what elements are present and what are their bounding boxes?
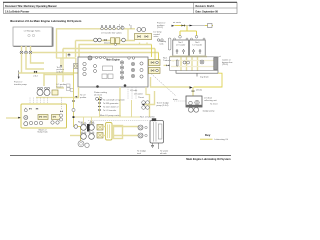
wire: TCV drops xyxy=(139,43,141,45)
top edge fittings xyxy=(95,56,97,58)
wire: cooler bottom pipe xyxy=(170,56,207,58)
pipe row A xyxy=(57,25,136,58)
pump unit A xyxy=(37,90,43,96)
wire: row B xyxy=(76,40,136,42)
auto filter column xyxy=(214,58,217,71)
svg-text:Lubricating Oil: Lubricating Oil xyxy=(215,138,229,141)
wire: loop to purifier xyxy=(70,126,140,139)
engine gauges mid xyxy=(94,61,144,79)
drain tank box xyxy=(186,96,202,107)
engine bottom fittings xyxy=(96,85,99,88)
LO cooler inlet pipe from purifier xyxy=(157,21,213,38)
valve on top pipe xyxy=(182,24,185,26)
heater dark xyxy=(87,124,90,132)
purifier pumps xyxy=(138,125,143,130)
valve: filter inlet xyxy=(164,65,170,67)
duplex filter F2 xyxy=(116,38,120,44)
wire: H2 drop xyxy=(62,49,64,53)
svg-text:purifier: purifier xyxy=(80,96,87,99)
valve: purifier suction valve (black) xyxy=(33,71,38,78)
wire: riser row B to engine xyxy=(75,41,77,58)
wire: deck box stubs xyxy=(22,46,31,51)
diagonal drain line xyxy=(151,74,176,97)
sensor labels xyxy=(130,89,144,99)
wire: filter drain to collecting unit xyxy=(194,73,223,87)
deck storage box xyxy=(13,27,53,47)
gauge pair xyxy=(137,28,141,32)
wire: manifold to coolers xyxy=(180,26,197,36)
header table xyxy=(3,2,237,13)
wire: dashed sensor drops xyxy=(88,87,152,121)
wire: branch verticals mid xyxy=(56,53,76,89)
valve bank on row A xyxy=(101,25,124,30)
tank pump 2 xyxy=(24,122,28,126)
vent stub 2 xyxy=(130,25,132,29)
tank inlet valve xyxy=(24,109,27,112)
svg-text:To 2.6.4: To 2.6.4 xyxy=(210,104,218,106)
wire: purifier feed band xyxy=(75,116,140,118)
svg-text:heaters: heaters xyxy=(57,86,64,89)
svg-text:valve: valve xyxy=(154,36,160,38)
svg-text:Document Title: Machinery Oper: Document Title: Machinery Operating Manu… xyxy=(5,5,57,8)
svg-text:tray drain: tray drain xyxy=(200,76,210,79)
wire: engine outlet corner xyxy=(146,87,150,95)
standpipe fittings xyxy=(72,100,75,102)
svg-text:LO Storage Tanks: LO Storage Tanks xyxy=(24,30,41,33)
svg-text:(2.6.4): (2.6.4) xyxy=(196,90,202,92)
valve: tank side inlet xyxy=(6,117,21,119)
pump unit 2 xyxy=(89,125,95,131)
filter internals xyxy=(177,60,179,66)
valve: drain inlet xyxy=(190,86,193,88)
wire: header H1 xyxy=(79,45,152,58)
purifier drains xyxy=(152,143,154,148)
svg-text:sludge pump: sludge pump xyxy=(203,111,216,113)
LO purifier unit xyxy=(137,116,169,155)
dashed stub left xyxy=(174,100,186,102)
pump unit 4 xyxy=(89,134,95,140)
drip tray xyxy=(176,71,218,77)
svg-text:To camshaft LO system: To camshaft LO system xyxy=(103,99,125,102)
turbocharger LO box 1 xyxy=(149,60,161,66)
label: to LO purifier mid xyxy=(75,95,87,99)
pump unit 3 xyxy=(81,134,87,140)
svg-text:Thrust: Thrust xyxy=(138,96,144,99)
strainer boxes xyxy=(97,125,103,139)
valve row B xyxy=(104,39,107,41)
engine label box xyxy=(103,66,113,71)
TCV box xyxy=(135,34,152,40)
label: sludge pump run xyxy=(142,91,170,107)
purifier body xyxy=(150,121,164,144)
svg-text:oil return: oil return xyxy=(94,93,103,96)
label: to LO purifiers xyxy=(57,67,64,74)
label on header H1 xyxy=(104,42,117,46)
key legend xyxy=(200,133,228,141)
wire: cooler outlet drops (pale) xyxy=(181,57,198,72)
main LO sump tank xyxy=(21,104,67,134)
bottom pumps xyxy=(78,141,84,147)
svg-text:LO Cooler: LO Cooler xyxy=(176,43,186,46)
svg-text:Date: September 08: Date: September 08 xyxy=(196,10,219,13)
pump P row B xyxy=(94,38,98,42)
svg-text:LO outlet: LO outlet xyxy=(134,93,143,96)
pump unit B xyxy=(44,90,50,96)
LO cooler No.1 xyxy=(190,38,206,56)
valve: H3 branch valve xyxy=(68,53,70,57)
wire: under-run xyxy=(36,97,79,99)
wire: purifier suction run xyxy=(19,72,79,74)
turning gear circle xyxy=(88,56,92,60)
svg-text:Main Engine Lubricating Oil Sy: Main Engine Lubricating Oil System xyxy=(186,157,231,161)
purifier heater pumps xyxy=(30,83,79,109)
wire: row A xyxy=(57,29,136,58)
svg-text:(2.6.2): (2.6.2) xyxy=(57,71,63,73)
cooler inlet valves (grey) xyxy=(179,36,198,39)
svg-text:Main LO pump suction: Main LO pump suction xyxy=(100,114,122,117)
svg-text:LO Cooler: LO Cooler xyxy=(193,43,203,46)
valve V1 xyxy=(20,51,23,54)
svg-text:(2.6.3): (2.6.3) xyxy=(222,64,228,66)
inner black valves xyxy=(29,108,31,110)
label: turbocharger xyxy=(163,58,176,62)
tank pump xyxy=(24,116,28,120)
deaerator circles xyxy=(142,101,150,110)
suction bellmouth box 2 xyxy=(52,115,61,120)
valve: pump suction xyxy=(74,125,78,129)
svg-text:Key: Key xyxy=(205,133,211,137)
mid distribution valve line xyxy=(98,96,125,117)
tank level gauge cluster xyxy=(59,98,62,122)
wire: cooler top pipe xyxy=(175,25,186,27)
svg-text:LO inlet: LO inlet xyxy=(130,89,138,92)
wire: transfer pump branch xyxy=(14,71,28,86)
tank motors xyxy=(29,121,32,124)
temperature control valve group xyxy=(128,28,163,45)
valve V2 xyxy=(25,51,28,54)
wire: drop to purifier pumps xyxy=(43,73,45,86)
svg-text:LO transfer line valves: LO transfer line valves xyxy=(101,31,122,34)
vent stub 1 xyxy=(121,25,123,29)
pipe row B xyxy=(76,38,136,44)
LO auto filter box xyxy=(170,57,219,71)
label: auto filter xyxy=(217,56,233,66)
small LO cooler vertical xyxy=(106,123,113,141)
valve V3 xyxy=(29,51,32,54)
turbocharger LO box 2 xyxy=(149,68,161,74)
level gauge column xyxy=(160,38,171,50)
svg-text:(2.6.2): (2.6.2) xyxy=(157,27,163,29)
wire: right risers xyxy=(152,45,159,63)
svg-text:To FW generator: To FW generator xyxy=(103,102,119,105)
flow meter xyxy=(208,24,213,28)
suction bellmouth box 1 xyxy=(38,115,48,120)
pump unit 1 xyxy=(81,125,87,131)
svg-text:oil tank: oil tank xyxy=(160,152,168,155)
piston cooling group xyxy=(94,91,108,100)
LO pump cluster xyxy=(78,117,95,148)
dashed suction drops xyxy=(30,98,48,110)
main engine box xyxy=(78,56,148,88)
LO cooler No.2 xyxy=(173,38,189,56)
svg-text:air vents: air vents xyxy=(173,21,181,24)
wire: header H2 xyxy=(63,48,155,50)
wire: left drop from valve line xyxy=(22,53,45,73)
svg-text:Sump Tank: Sump Tank xyxy=(37,132,48,134)
svg-text:To stern tube LO: To stern tube LO xyxy=(103,106,119,109)
pump wheels below xyxy=(188,107,193,112)
wire: purifier suction run 2 xyxy=(44,74,74,76)
svg-text:No.1 LO purifier: No.1 LO purifier xyxy=(140,116,155,119)
footer rule xyxy=(10,155,231,157)
engine small boxes xyxy=(102,74,107,79)
duplex filter F1 xyxy=(111,38,115,44)
wire: engine bottom drops xyxy=(74,87,150,117)
wire: drain inlet (pale) xyxy=(151,77,190,87)
wire: internal headers xyxy=(171,60,214,62)
heater box xyxy=(52,90,58,95)
svg-text:transfer pump: transfer pump xyxy=(14,83,28,86)
svg-text:pump (2.6.4): pump (2.6.4) xyxy=(157,105,169,107)
gauge row B xyxy=(122,38,126,42)
engine gauges left xyxy=(83,62,86,75)
wire: suction drop to pumps xyxy=(80,127,82,141)
svg-text:To LO transfer: To LO transfer xyxy=(103,109,116,112)
svg-text:2.6.1a British Pioneer: 2.6.1a British Pioneer xyxy=(5,10,29,13)
drain collecting unit xyxy=(151,77,219,113)
svg-text:Illustration 2.6.1a Main Engi: Illustration 2.6.1a Main Engine Lubricat… xyxy=(10,19,82,23)
svg-text:Main Engine: Main Engine xyxy=(106,60,120,62)
wire: standpipe right of tank xyxy=(74,69,81,127)
wire: mid vertical xyxy=(131,100,133,117)
svg-text:Revision: Draft 1: Revision: Draft 1 xyxy=(196,5,216,8)
svg-text:collecting unit: collecting unit xyxy=(204,99,217,102)
purifier feed module xyxy=(74,64,79,69)
wire: pump suction stubs xyxy=(83,117,85,124)
wire: main header H3 xyxy=(32,52,159,54)
